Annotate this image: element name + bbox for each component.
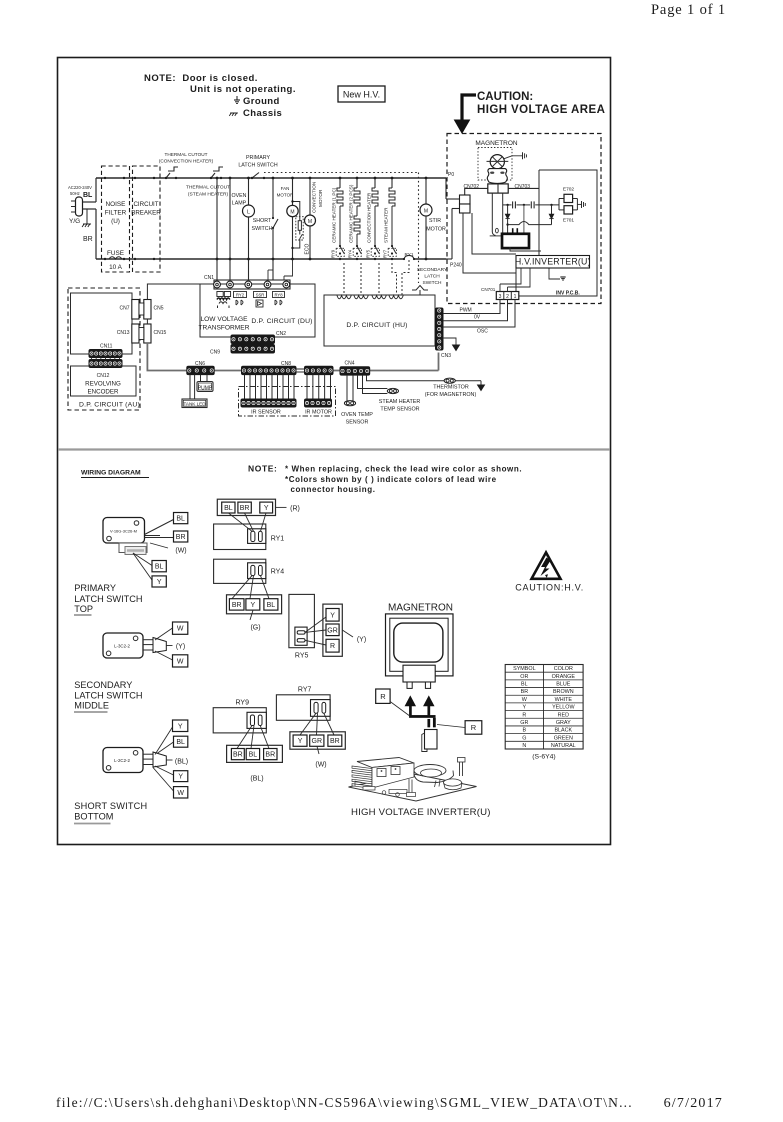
wire CN5 up to CN1 board xyxy=(147,284,210,300)
svg-text:BL: BL xyxy=(83,192,93,199)
filament thick bus xyxy=(409,715,435,718)
svg-text:(U): (U) xyxy=(111,218,120,225)
wire housing (Y) xyxy=(166,645,172,647)
wire CN5 to CN15 xyxy=(146,319,148,324)
terminal label Y top xyxy=(173,720,188,732)
svg-text:GR: GR xyxy=(520,720,528,726)
svg-text:(BL): (BL) xyxy=(175,759,188,766)
wire plug to bus xyxy=(83,201,97,203)
svg-text:TANK LED: TANK LED xyxy=(183,402,206,407)
svg-text:W: W xyxy=(177,658,184,665)
AC supply plug P1 xyxy=(76,197,83,216)
svg-text:(BL): (BL) xyxy=(250,776,263,783)
svg-text:R: R xyxy=(380,692,386,701)
wire hv lower with hop xyxy=(508,222,552,225)
svg-text:NOTE:: NOTE: xyxy=(248,464,277,474)
H.V. inverter label box xyxy=(516,256,590,269)
svg-text:Ground: Ground xyxy=(243,96,280,107)
svg-text:IR SENSOR: IR SENSOR xyxy=(251,410,281,416)
svg-text:CN12: CN12 xyxy=(97,373,110,379)
hv capacitor C2 xyxy=(517,204,531,206)
svg-text:E702: E702 xyxy=(563,186,575,192)
svg-text:HIGH VOLTAGE INVERTER(U): HIGH VOLTAGE INVERTER(U) xyxy=(351,807,491,818)
oven lamp L1 xyxy=(231,177,254,280)
wires RY7 pins to strip xyxy=(300,713,316,735)
relay RY1 contact xyxy=(402,252,415,295)
wires CN8 to IR sensor xyxy=(244,375,246,399)
diagram outer border xyxy=(58,58,611,845)
svg-text:CERAMIC HEATER (1 PC): CERAMIC HEATER (1 PC) xyxy=(332,187,337,243)
svg-text:MOTOR: MOTOR xyxy=(277,193,294,198)
hv diode D1 xyxy=(507,205,509,214)
svg-text:connector housing.: connector housing. xyxy=(291,485,376,494)
relay RY7 terminal strip xyxy=(290,732,345,749)
noise filter U dashed box xyxy=(102,166,130,272)
svg-text:PRIMARY: PRIMARY xyxy=(246,155,271,161)
svg-text:M: M xyxy=(424,209,428,215)
svg-text:CN11: CN11 xyxy=(100,344,113,350)
svg-text:E701: E701 xyxy=(563,218,575,224)
svg-text:THERMAL CUTOUT: THERMAL CUTOUT xyxy=(165,152,208,157)
svg-text:OR: OR xyxy=(520,674,528,680)
svg-text:BLUE: BLUE xyxy=(556,682,570,688)
junction dots on buses at filter xyxy=(104,177,106,179)
svg-text:IR MOTOR: IR MOTOR xyxy=(305,410,332,416)
wire to lower Y xyxy=(133,553,152,580)
svg-text:H.V.INVERTER(U): H.V.INVERTER(U) xyxy=(515,257,591,267)
svg-text:CN2: CN2 xyxy=(276,331,286,337)
svg-text:NATURAL: NATURAL xyxy=(551,743,576,749)
thermistor ground arrow xyxy=(479,380,482,382)
svg-text:SHORT: SHORT xyxy=(253,218,272,224)
bottom supply bus wire N xyxy=(96,258,404,260)
svg-text:CONVECTION HEATER: CONVECTION HEATER xyxy=(367,192,372,243)
secondary latch switch drawing xyxy=(103,633,166,658)
svg-text:10 A: 10 A xyxy=(109,264,123,271)
svg-text:BL: BL xyxy=(249,752,258,759)
wires CN11 to CN12 xyxy=(91,358,93,360)
svg-text:AC220-240V: AC220-240V xyxy=(68,185,92,190)
svg-text:Y: Y xyxy=(251,602,256,609)
svg-text:LATCH: LATCH xyxy=(424,274,440,280)
svg-text:L: L xyxy=(247,210,250,216)
svg-text:GREEN: GREEN xyxy=(554,735,573,741)
svg-text:TEMP SENSOR: TEMP SENSOR xyxy=(380,407,419,413)
svg-text:BL: BL xyxy=(224,505,233,512)
magnetron tube V1 xyxy=(487,155,509,184)
svg-text:RED: RED xyxy=(558,712,569,718)
svg-text:NOISE: NOISE xyxy=(106,201,126,208)
terminal label BL xyxy=(174,736,188,747)
svg-text:New H.V.: New H.V. xyxy=(343,90,380,100)
wires magnetron filament xyxy=(491,193,493,232)
svg-text:MAGNETRON: MAGNETRON xyxy=(388,603,453,614)
svg-text:BLACK: BLACK xyxy=(554,728,572,734)
svg-text:Page 1 of 1: Page 1 of 1 xyxy=(651,2,726,18)
wire to W terminal top xyxy=(155,628,173,640)
svg-text:CN703: CN703 xyxy=(515,184,531,190)
svg-text:file://C:\Users\sh.dehghani\De: file://C:\Users\sh.dehghani\Desktop\NN-C… xyxy=(56,1095,633,1110)
svg-text:Unit is not operating.: Unit is not operating. xyxy=(190,84,296,95)
wire to lower BL xyxy=(133,553,152,566)
wires RY5 pins to strip xyxy=(305,617,326,632)
wire housing (BL) xyxy=(166,759,172,761)
svg-text:BR: BR xyxy=(330,738,340,745)
steam heater H4 xyxy=(383,177,397,261)
terminal label W top xyxy=(173,622,188,634)
svg-text:RY4: RY4 xyxy=(348,249,353,258)
svg-text:SSR: SSR xyxy=(256,293,265,298)
svg-text:CN4: CN4 xyxy=(345,361,355,367)
wires CN8 to IR motor xyxy=(306,375,308,399)
svg-text:R: R xyxy=(522,712,526,718)
eco relay RY11 xyxy=(291,200,310,254)
svg-text:RY5: RY5 xyxy=(366,249,371,258)
wire inverter internal 1 xyxy=(463,213,516,273)
primary latch switch drawing xyxy=(103,518,147,555)
housing label (R) xyxy=(276,506,287,508)
inverter pcb outline xyxy=(516,170,597,296)
wire to BL terminal xyxy=(145,520,174,535)
inverter board ground xyxy=(560,276,565,278)
svg-text:CAUTION:H.V.: CAUTION:H.V. xyxy=(515,583,584,593)
svg-text:RY5: RY5 xyxy=(295,653,309,660)
svg-text:2: 2 xyxy=(506,294,509,300)
svg-text:SYMBOL: SYMBOL xyxy=(513,666,535,672)
magnetron connector block xyxy=(488,184,508,193)
relay RY1 terminal strip xyxy=(217,499,275,515)
wire to BL terminal xyxy=(157,742,174,754)
svg-text:RY9: RY9 xyxy=(331,249,336,258)
svg-text:FUSE: FUSE xyxy=(107,250,124,257)
svg-text:SENSOR: SENSOR xyxy=(346,420,369,426)
svg-text:CN3: CN3 xyxy=(441,353,451,359)
connector plug P0/P240 to inverter xyxy=(460,195,471,204)
wire color code table xyxy=(505,665,583,750)
svg-text:MOTOR: MOTOR xyxy=(426,227,446,233)
svg-text:M: M xyxy=(290,210,294,216)
convection motor M2 xyxy=(305,177,324,261)
svg-text:REVOLVING: REVOLVING xyxy=(85,381,121,388)
HU input coils xyxy=(337,296,351,299)
wire CN15 to connector row xyxy=(147,343,186,371)
svg-text:INV P.C.B.: INV P.C.B. xyxy=(556,291,580,297)
svg-text:Y: Y xyxy=(298,738,303,745)
svg-text:D.P. CIRCUIT (AU): D.P. CIRCUIT (AU) xyxy=(79,402,140,409)
svg-text:L-2C2-2: L-2C2-2 xyxy=(114,758,130,763)
wires RY4 pins to strip xyxy=(232,576,252,599)
svg-text:CN5: CN5 xyxy=(154,306,164,312)
svg-text:(G): (G) xyxy=(250,625,260,632)
svg-text:0V: 0V xyxy=(474,315,481,321)
circuit breaker dashed box xyxy=(133,166,161,272)
svg-text:(W): (W) xyxy=(315,762,326,769)
svg-text:BR: BR xyxy=(521,689,529,695)
svg-text:STEAM HEATER: STEAM HEATER xyxy=(384,207,389,243)
wire main harness rail xyxy=(214,370,242,372)
svg-text:STIR: STIR xyxy=(429,218,441,224)
svg-text:GR: GR xyxy=(312,738,323,745)
earth ground symbol at plug xyxy=(86,209,88,224)
svg-text:BL: BL xyxy=(267,602,276,609)
svg-text:TOP: TOP xyxy=(74,604,93,614)
svg-text:PRIMARY: PRIMARY xyxy=(74,583,116,593)
svg-text:FAN: FAN xyxy=(281,186,290,191)
ground legend symbol xyxy=(234,99,240,101)
section divider line xyxy=(58,448,610,450)
filament arrow right xyxy=(424,697,434,706)
svg-text:NOTE: Door is closed.: NOTE: Door is closed. xyxy=(144,73,258,84)
svg-text:CN15: CN15 xyxy=(154,330,167,336)
ceramic heater H1 xyxy=(331,177,345,261)
wire CN701 pins up xyxy=(499,284,501,292)
wire DU to CN2 xyxy=(251,335,253,337)
wires RY9 pins to strip xyxy=(237,726,252,749)
svg-text:PUMP: PUMP xyxy=(198,385,213,391)
wire branch 2 to CN1 xyxy=(229,178,231,280)
svg-text:Y/G: Y/G xyxy=(69,218,80,225)
svg-text:BL: BL xyxy=(521,682,528,688)
hv transformer T2 (black box) xyxy=(490,235,502,237)
svg-text:BR: BR xyxy=(232,602,242,609)
relay RY1 body xyxy=(214,524,285,550)
relay RY7 body xyxy=(276,695,330,721)
wire to BR terminal xyxy=(145,537,174,539)
svg-text:P0: P0 xyxy=(448,172,454,178)
svg-text:CERAMIC HEATER (2 PCS): CERAMIC HEATER (2 PCS) xyxy=(349,184,354,243)
convection heater H3 xyxy=(366,177,380,261)
terminal label W bottom xyxy=(173,655,188,667)
thermistor for magnetron RT3 xyxy=(367,375,479,381)
terminal label BL xyxy=(174,513,188,524)
svg-text:HIGH VOLTAGE AREA: HIGH VOLTAGE AREA xyxy=(477,104,605,116)
svg-text:W: W xyxy=(177,626,184,633)
IR sensor connector xyxy=(241,399,296,407)
svg-text:BL: BL xyxy=(155,564,164,571)
svg-text:ORANGE: ORANGE xyxy=(552,674,576,680)
wire R to arrows xyxy=(390,702,409,716)
svg-text:Y: Y xyxy=(178,774,183,781)
svg-text:RY8: RY8 xyxy=(274,293,283,298)
wire to Y terminal top xyxy=(155,727,173,755)
wires RY1 strip to pins xyxy=(229,513,253,531)
connector CN3 xyxy=(436,308,444,350)
svg-text:B: B xyxy=(523,728,527,734)
magnetron case ground xyxy=(504,156,523,159)
svg-text:CN701: CN701 xyxy=(481,287,496,292)
svg-text:SHORT SWITCH: SHORT SWITCH xyxy=(74,801,147,811)
svg-text:Y: Y xyxy=(178,723,183,730)
svg-text:LATCH SWITCH: LATCH SWITCH xyxy=(74,594,142,604)
svg-text:CN7: CN7 xyxy=(119,306,129,312)
svg-text:SWITCH: SWITCH xyxy=(423,280,442,286)
terminal label BL lower xyxy=(152,561,166,572)
svg-text:D.P. CIRCUIT (HU): D.P. CIRCUIT (HU) xyxy=(346,322,407,329)
svg-text:OSC: OSC xyxy=(477,329,488,335)
svg-text:M: M xyxy=(308,219,312,225)
svg-text:6/7/2017: 6/7/2017 xyxy=(664,1096,723,1111)
chassis legend symbol xyxy=(230,112,238,114)
svg-text:(W): (W) xyxy=(175,548,186,555)
primary latch switch S1 xyxy=(238,155,278,179)
terminal label Y lower xyxy=(152,576,166,587)
svg-text:BOTTOM: BOTTOM xyxy=(74,812,113,822)
relay RY4 terminal strip xyxy=(227,595,282,614)
svg-text:COLOR: COLOR xyxy=(554,666,573,672)
svg-text:Y: Y xyxy=(157,579,162,586)
D.P. circuit AU dashed box xyxy=(68,288,140,410)
svg-text:RY2: RY2 xyxy=(236,293,245,298)
wire R to connector xyxy=(437,725,465,728)
svg-text:N: N xyxy=(522,743,526,749)
svg-text:BR: BR xyxy=(233,752,243,759)
svg-text:LATCH SWITCH: LATCH SWITCH xyxy=(74,691,142,701)
AU inner board box xyxy=(71,293,133,354)
hv capacitor C1 xyxy=(503,204,512,206)
lead label R left xyxy=(376,689,390,703)
svg-text:G: G xyxy=(522,735,526,741)
thermal cutout TC2 (steam heater) xyxy=(186,167,230,198)
svg-text:Y: Y xyxy=(264,505,269,512)
svg-text:D.P. CIRCUIT (DU): D.P. CIRCUIT (DU) xyxy=(251,318,312,325)
revolving encoder board xyxy=(71,366,137,396)
svg-text:WHITE: WHITE xyxy=(555,697,573,703)
steam heater temp sensor RT2 xyxy=(358,375,388,388)
wire CN3 ground xyxy=(443,338,456,345)
relay RY9 terminal strip xyxy=(227,745,283,762)
terminal ground xyxy=(577,203,581,205)
svg-text:RY7: RY7 xyxy=(383,249,388,258)
svg-text:MAGNETRON: MAGNETRON xyxy=(475,140,518,147)
svg-text:BR: BR xyxy=(176,534,186,541)
svg-text:50Hz: 50Hz xyxy=(70,191,80,196)
relay RY5 body xyxy=(289,594,315,659)
filament arrow left xyxy=(405,697,415,706)
wire inverter internal 4 xyxy=(549,267,560,279)
housing label (W) xyxy=(317,746,319,754)
svg-text:(Y): (Y) xyxy=(357,637,366,644)
svg-text:STEAM HEATER: STEAM HEATER xyxy=(379,399,421,405)
svg-text:YELLOW: YELLOW xyxy=(552,705,575,711)
hv diode D2 xyxy=(551,205,553,214)
svg-text:CAUTION:: CAUTION: xyxy=(477,91,533,103)
wire to Y terminal lower xyxy=(155,766,174,775)
thermal cutout TC1 (convection heater) xyxy=(159,152,214,179)
terminal label W xyxy=(174,787,188,798)
solid state relay SSR xyxy=(254,292,267,298)
housing label (G) xyxy=(250,610,253,620)
IR motor connector xyxy=(305,399,332,407)
svg-text:R: R xyxy=(330,643,335,650)
svg-text:MOTOR: MOTOR xyxy=(318,189,323,207)
magnetron dotted box xyxy=(478,148,512,181)
relay RY5 terminal strip xyxy=(323,604,342,656)
svg-text:Chassis: Chassis xyxy=(243,108,282,119)
svg-text:LOW VOLTAGE: LOW VOLTAGE xyxy=(200,316,248,323)
top supply bus wire L xyxy=(96,177,446,179)
svg-text:BR: BR xyxy=(265,752,275,759)
svg-text:CN13: CN13 xyxy=(117,330,130,336)
svg-text:SECONDARY: SECONDARY xyxy=(74,680,132,690)
svg-text:ENCODER: ENCODER xyxy=(88,389,119,396)
svg-text:(STEAM HEATER): (STEAM HEATER) xyxy=(188,192,229,198)
relay contact dashed links to HU board xyxy=(343,263,345,295)
svg-text:OVEN TEMP: OVEN TEMP xyxy=(341,412,373,418)
svg-text:RY1: RY1 xyxy=(271,536,285,543)
svg-text:TRANSFORMER: TRANSFORMER xyxy=(199,325,250,332)
stir motor M3 xyxy=(420,177,446,261)
connector CN12 xyxy=(89,360,122,368)
svg-text:LAMP: LAMP xyxy=(232,201,247,207)
wire inverter internal 2 xyxy=(472,213,516,254)
latch linkage dotted line xyxy=(264,172,419,174)
short switch S2 xyxy=(252,177,278,280)
svg-text:*Colors shown by ( ) indicate: *Colors shown by ( ) indicate colors of … xyxy=(285,475,497,484)
svg-text:GR: GR xyxy=(327,627,338,634)
svg-text:PWM: PWM xyxy=(460,308,472,314)
svg-text:W: W xyxy=(522,697,528,703)
wire CN703 to inverter xyxy=(508,187,539,189)
svg-text:BREAKER: BREAKER xyxy=(131,210,161,217)
wire branch thermal cutout to CN1 xyxy=(216,178,218,280)
svg-text:CN1: CN1 xyxy=(204,275,214,281)
svg-text:SECONDARY: SECONDARY xyxy=(417,267,448,273)
wire to W terminal bottom xyxy=(155,651,173,660)
short switch drawing xyxy=(103,748,166,773)
svg-text:WIRING DIAGRAM: WIRING DIAGRAM xyxy=(81,470,141,477)
wire to W terminal xyxy=(153,768,174,792)
svg-text:L-3C2-2: L-3C2-2 xyxy=(114,644,130,649)
New H.V. label box xyxy=(338,86,385,102)
svg-text:(FOR MAGNETRON): (FOR MAGNETRON) xyxy=(425,392,477,398)
relay RY4 body xyxy=(214,559,285,583)
svg-text:BL: BL xyxy=(176,516,185,523)
svg-text:RY9: RY9 xyxy=(236,700,250,707)
svg-text:3: 3 xyxy=(499,294,502,300)
wire pwm tap xyxy=(523,205,525,234)
D.P. circuit DU board box xyxy=(200,284,315,337)
svg-text:OVEN: OVEN xyxy=(231,193,246,199)
svg-text:BR: BR xyxy=(83,236,93,243)
svg-text:GRAY: GRAY xyxy=(556,720,571,726)
svg-text:RY4: RY4 xyxy=(271,569,285,576)
oven temp sensor RT1 xyxy=(346,375,348,401)
tank led DS1 xyxy=(189,375,191,399)
svg-text:CONVECTION: CONVECTION xyxy=(312,182,317,213)
svg-text:Y: Y xyxy=(523,705,527,711)
lead label R right xyxy=(465,721,482,735)
svg-text:CIRCUIT: CIRCUIT xyxy=(133,201,158,208)
wire CN702 to plug xyxy=(465,188,488,195)
wires CN1 pins up xyxy=(283,276,285,280)
svg-text:(R): (R) xyxy=(290,506,300,513)
svg-text:(S-6Y4): (S-6Y4) xyxy=(532,754,555,761)
high voltage inverter pcb drawing xyxy=(349,758,477,802)
svg-text:THERMISTOR: THERMISTOR xyxy=(433,385,469,391)
housing label (W) xyxy=(150,543,168,548)
fan motor M1 xyxy=(277,177,299,261)
high voltage area dashed box xyxy=(447,134,601,304)
terminal label BR xyxy=(174,531,188,542)
svg-text:W: W xyxy=(177,790,184,797)
svg-text:LATCH SWITCH: LATCH SWITCH xyxy=(238,163,278,169)
caution high voltage arrow xyxy=(462,95,476,120)
IR dashed box xyxy=(239,387,336,417)
wire inverter internal 3 xyxy=(510,247,541,251)
magnetron body drawing xyxy=(386,614,454,689)
svg-text:(CONVECTION HEATER): (CONVECTION HEATER) xyxy=(159,159,214,164)
svg-text:BL: BL xyxy=(176,739,185,746)
